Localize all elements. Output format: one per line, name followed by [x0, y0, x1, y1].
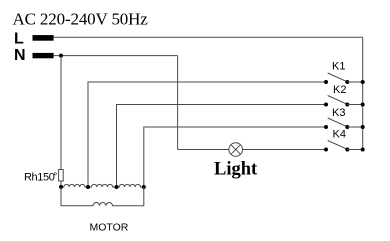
resistor Rh150	[59, 170, 64, 182]
wire resistor to motor node	[60, 181, 62, 187]
wire N down to resistor	[60, 56, 62, 170]
switch K3	[324, 118, 365, 129]
lamp Light	[229, 143, 243, 157]
wire K3 row	[144, 127, 326, 187]
wire N horizontal	[54, 55, 178, 57]
motor winding 2	[88, 184, 117, 187]
switch K4	[324, 141, 365, 152]
svg-text:AC 220-240V 50Hz: AC 220-240V 50Hz	[13, 10, 149, 29]
svg-text:K4: K4	[333, 129, 346, 141]
svg-text:MOTOR: MOTOR	[90, 221, 129, 233]
node motor tap 1	[59, 185, 63, 189]
node N junction	[59, 54, 63, 58]
svg-text:K1: K1	[332, 61, 345, 73]
svg-text:L: L	[14, 31, 24, 48]
svg-text:Rh150: Rh150	[24, 172, 55, 184]
wire lamp row right	[243, 149, 327, 151]
wire K2 row	[117, 105, 327, 188]
wire lamp row left	[178, 149, 229, 151]
motor winding 3	[117, 184, 144, 187]
wire right bus	[362, 37, 364, 149]
terminal bar L	[33, 35, 54, 41]
node motor tap 3	[115, 185, 119, 189]
svg-text:K3: K3	[332, 107, 345, 119]
svg-text:N: N	[14, 47, 26, 64]
wire K1 row	[88, 82, 326, 187]
svg-text:Light: Light	[214, 160, 258, 180]
terminal bar N	[33, 53, 54, 58]
switch K1	[324, 73, 365, 84]
motor auxiliary winding loop	[61, 187, 144, 206]
wire L top	[54, 36, 363, 38]
node motor tap 2	[86, 185, 90, 189]
svg-text:K2: K2	[333, 84, 346, 96]
motor winding 1	[61, 184, 88, 187]
wire lamp feed: N right corner down	[177, 56, 179, 150]
node motor tap 4	[142, 185, 146, 189]
switch K2	[324, 96, 365, 107]
